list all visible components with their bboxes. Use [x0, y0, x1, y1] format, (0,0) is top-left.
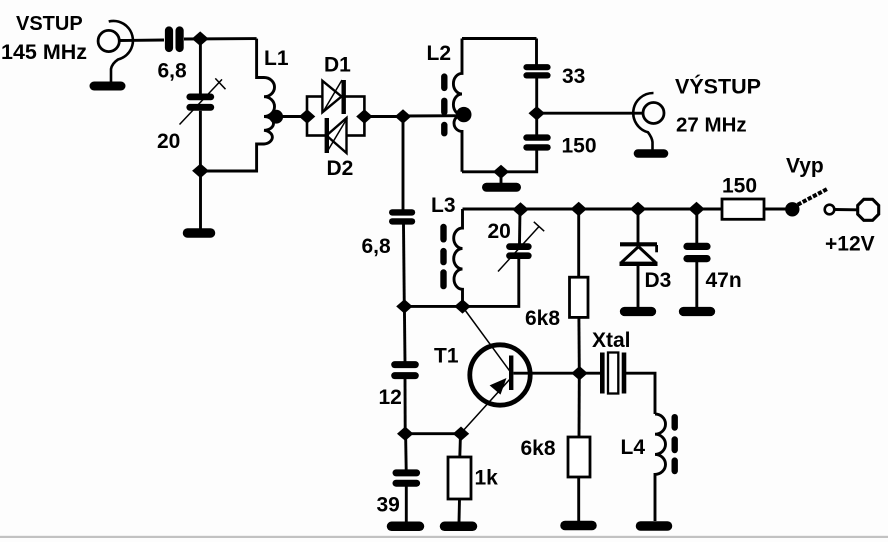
switch Vyp lever [793, 189, 829, 208]
node C (left of diode pair) [299, 109, 315, 123]
wire C9 to ground [405, 487, 408, 523]
node M (base / 6k8 divider) [571, 366, 587, 380]
wire node J to T1 collector [464, 308, 511, 372]
capacitor C8 12 [395, 365, 416, 376]
capacitor C4 150 [527, 138, 548, 148]
svg-text:33: 33 [562, 65, 585, 88]
wire diode pair to node E [364, 115, 403, 118]
wire C5 down to node H [402, 225, 406, 307]
node A (top of input tank) [192, 31, 209, 46]
wire C2 to bottom node [199, 111, 202, 171]
resistor R3 150 [722, 199, 764, 219]
svg-text:D1: D1 [324, 54, 351, 77]
wire node M down to R4 [578, 373, 581, 437]
svg-text:6k8: 6k8 [525, 307, 560, 330]
ground under R4 [565, 521, 592, 531]
wire node P down to R5 [458, 434, 462, 457]
connector J1 VSTUP input jack [98, 21, 133, 82]
connector +12V terminal [858, 199, 879, 220]
capacitor C3 33 [527, 67, 548, 75]
svg-text:T1: T1 [434, 345, 459, 368]
node E (mixer node) [395, 109, 411, 123]
ground under output jack [638, 149, 664, 158]
wire node O to node P [405, 432, 461, 435]
svg-text:150: 150 [562, 135, 597, 158]
capacitor C5 6,8 [392, 212, 412, 221]
wire C6 down to row [404, 259, 518, 306]
node K (rail / R2 6k8) [571, 202, 587, 216]
ground under VSTUP jack [94, 82, 121, 91]
node L2 tap [456, 107, 471, 122]
wire node K to R2 [577, 209, 580, 278]
wire node G to ground [500, 172, 503, 184]
wire node E to L2 tap [403, 114, 462, 117]
node J (L3 bottom / collector) [454, 299, 470, 313]
inductor L3 [454, 209, 463, 306]
svg-text:L1: L1 [264, 47, 289, 70]
node L (rail / D3) [630, 202, 646, 216]
trimmer capacitor C6 20 [498, 222, 544, 272]
ground under input tank [188, 228, 211, 238]
ferrite core of L4 (dashed) [672, 417, 678, 471]
svg-text:20: 20 [488, 220, 511, 243]
wire R5 to ground [458, 499, 461, 522]
wire node E down to C5 [402, 117, 405, 210]
diode D2 [327, 118, 348, 153]
resistor R2 6k8 (top) [570, 277, 589, 317]
border artifact bottom [0, 536, 888, 538]
node D (right of diode pair) [356, 109, 372, 123]
svg-text:6k8: 6k8 [521, 437, 556, 460]
wire C3 to node F [535, 78, 538, 113]
node L1 tap [269, 110, 283, 124]
svg-text:150: 150 [722, 175, 757, 198]
svg-text:+12V: +12V [825, 233, 875, 256]
wire node H down to C8 [403, 306, 407, 362]
svg-text:L4: L4 [621, 436, 646, 459]
node N (switch pole) [785, 202, 799, 216]
svg-text:Xtal: Xtal [592, 329, 631, 352]
ground under D3 [625, 307, 652, 316]
zener diode D3 [620, 244, 658, 263]
svg-text:6,8: 6,8 [158, 60, 188, 83]
svg-text:L2: L2 [427, 42, 452, 65]
svg-text:12: 12 [379, 386, 402, 409]
wire input jack to C1 [119, 39, 164, 42]
svg-text:27 MHz: 27 MHz [676, 114, 747, 137]
svg-text:D3: D3 [645, 269, 672, 292]
wire node I to C6 [518, 210, 521, 244]
capacitor C7 47n [687, 246, 707, 258]
wire L1 tap to diode pair [276, 115, 307, 118]
ground under C7 [684, 307, 711, 316]
svg-text:145 MHz: 145 MHz [1, 40, 87, 64]
switch throw contact [825, 205, 835, 215]
wire L2 top edge [462, 37, 537, 40]
transistor T1 [462, 345, 531, 433]
diode D1 [322, 80, 343, 114]
capacitor C9 39 [396, 473, 417, 483]
wire C8 down to node O [404, 379, 407, 434]
wire L2 right edge to C3 [535, 39, 538, 66]
node F (output tap) [529, 106, 545, 120]
wire R4 to ground [577, 477, 580, 521]
ferrite core of L2 (dashed) [441, 77, 447, 134]
ground under L4 [641, 521, 668, 531]
wire node F to C4 [535, 113, 538, 134]
wire node M2 to C7 [695, 209, 698, 244]
svg-text:VÝSTUP: VÝSTUP [675, 74, 761, 99]
svg-text:1k: 1k [475, 467, 499, 490]
wire switch to +12V terminal [835, 208, 858, 211]
wire rail L3 top to R1 [463, 208, 723, 211]
wire C7 to ground [695, 262, 698, 308]
svg-text:Vyp: Vyp [786, 155, 824, 178]
svg-text:6,8: 6,8 [362, 235, 392, 258]
wire D3 to ground [637, 263, 640, 308]
wire node F to output jack [537, 112, 644, 115]
node I (rail / trimmer C6) [512, 202, 528, 216]
inductor L1 [254, 39, 275, 171]
svg-text:VSTUP: VSTUP [16, 13, 83, 35]
node O (emitter row left) [397, 427, 413, 441]
wire node B to L1 bottom [201, 170, 257, 173]
inductor L4 [655, 414, 666, 521]
svg-text:L3: L3 [431, 194, 456, 217]
node H (C5/L3 bottom row left) [396, 299, 412, 313]
wire T1 base to Xtal [514, 372, 601, 375]
wire node O down to C9 [404, 434, 408, 470]
wire R2 to node M [577, 317, 580, 373]
svg-text:20: 20 [157, 130, 180, 153]
trimmer capacitor C2 20 [180, 78, 226, 124]
wire node B to ground [199, 171, 202, 229]
crystal Xtal [602, 353, 624, 394]
connector J2 VYSTUP output jack [633, 93, 664, 150]
inductor L2 [453, 39, 462, 172]
wire C4 to L2 bottom edge [462, 151, 537, 172]
wire Xtal to L4 [626, 373, 655, 414]
wire node A down to C2 [199, 39, 202, 94]
ground under R5 [445, 522, 473, 532]
resistor R4 6k8 (bottom) [568, 437, 590, 477]
ferrite core of L3 (dashed) [440, 227, 446, 286]
node P (emitter junction) [453, 427, 469, 441]
node B (bottom of input tank) [192, 164, 209, 179]
node G (L2 ground junction) [493, 165, 509, 179]
ground under C9 [392, 522, 420, 532]
wire frame of diode pair D1/D2 [307, 97, 364, 136]
wire node L to D3 [637, 209, 640, 243]
resistor R5 1k [448, 457, 471, 499]
svg-text:D2: D2 [327, 157, 354, 180]
capacitor C1 6,8 (series) [169, 31, 180, 49]
wire R3 to switch [764, 208, 786, 211]
wire C1 to L1 top [184, 37, 257, 40]
node M2 (rail / C7 47n) [688, 202, 704, 216]
svg-text:47n: 47n [706, 269, 742, 292]
ground under L2 [487, 183, 517, 192]
svg-text:39: 39 [377, 494, 400, 517]
